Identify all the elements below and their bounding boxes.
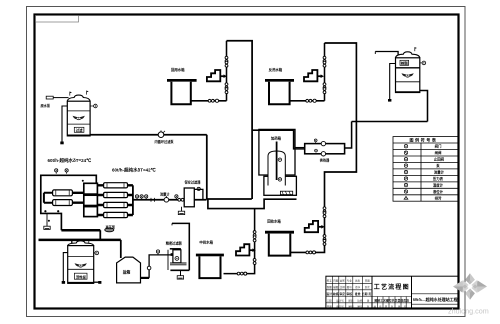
svg-text:比例: 比例 (340, 285, 346, 289)
svg-text:专业: 专业 (347, 278, 353, 282)
svg-text:内循环过滤泵: 内循环过滤泵 (155, 139, 175, 144)
svg-text:原水泵: 原水泵 (41, 103, 51, 108)
svg-text:日期: 日期 (327, 305, 333, 309)
svg-text:图号: 图号 (347, 285, 353, 289)
svg-text:签字: 签字 (327, 278, 333, 282)
svg-text:工程: 工程 (327, 298, 333, 302)
svg-text:制图: 制图 (327, 285, 333, 289)
svg-text:图别: 图别 (348, 305, 354, 309)
svg-text:图例符号表: 图例符号表 (410, 137, 438, 143)
svg-text:60t/h—超纯水处理站工程: 60t/h—超纯水处理站工程 (413, 296, 458, 302)
svg-text:阶段: 阶段 (348, 298, 354, 302)
svg-text:回用水箱: 回用水箱 (171, 67, 185, 72)
svg-text:液位计: 液位计 (433, 189, 444, 194)
svg-text:会签: 会签 (340, 278, 346, 282)
svg-text:页: 页 (367, 292, 371, 296)
svg-text:高压泵: 高压泵 (106, 225, 116, 230)
svg-text:止回阀: 止回阀 (434, 157, 445, 162)
svg-text:过滤: 过滤 (76, 128, 83, 133)
svg-text:树脂: 树脂 (401, 61, 409, 66)
svg-text:校核: 校核 (333, 292, 339, 296)
svg-text:压力表: 压力表 (433, 176, 444, 181)
svg-text:中间水箱: 中间水箱 (199, 240, 213, 245)
svg-text:审核: 审核 (346, 292, 352, 296)
svg-text:签字: 签字 (355, 285, 361, 289)
svg-text:反洗水箱: 反洗水箱 (269, 67, 283, 72)
svg-text:闸阀: 闸阀 (435, 150, 442, 155)
svg-text:审定号: 审定号 (336, 305, 344, 309)
svg-text:60t/h-超纯水δT=24℃: 60t/h-超纯水δT=24℃ (48, 157, 93, 164)
svg-text:设计号: 设计号 (336, 298, 344, 302)
svg-text:保安过滤器: 保安过滤器 (184, 179, 202, 184)
svg-text:流量计: 流量计 (160, 191, 170, 196)
svg-text:描图: 描图 (333, 285, 339, 289)
svg-text:图别工艺图号共页第张页次: 图别工艺图号共页第张页次 (374, 298, 409, 303)
svg-text:换热器: 换热器 (320, 157, 330, 162)
svg-text:比例: 比例 (357, 298, 363, 302)
svg-text:精密过滤器: 精密过滤器 (166, 240, 183, 245)
svg-text:活性炭: 活性炭 (76, 274, 87, 279)
svg-text:页次: 页次 (365, 285, 371, 289)
svg-text:批准: 批准 (355, 292, 361, 296)
svg-text:阀门: 阀门 (435, 144, 442, 149)
svg-text:zhulong.com: zhulong.com (448, 307, 489, 316)
svg-text:加药箱: 加药箱 (270, 136, 282, 141)
svg-text:日期: 日期 (365, 278, 371, 282)
svg-text:审定: 审定 (339, 292, 345, 296)
svg-text:姓名: 姓名 (355, 278, 361, 282)
svg-text:回收水箱: 回收水箱 (267, 218, 281, 223)
svg-text:日期: 日期 (333, 278, 339, 282)
svg-text:流量计: 流量计 (434, 170, 445, 175)
svg-text:工艺流程图: 工艺流程图 (374, 283, 410, 291)
svg-text:排污: 排污 (435, 195, 442, 200)
svg-text:图号: 图号 (357, 305, 363, 309)
svg-text:日期: 日期 (362, 292, 368, 296)
svg-text:温度计: 温度计 (433, 183, 444, 188)
svg-text:盐箱: 盐箱 (123, 269, 131, 274)
svg-text:设计: 设计 (326, 292, 332, 296)
svg-text:60t/h-超纯水δT=42℃: 60t/h-超纯水δT=42℃ (112, 167, 157, 174)
